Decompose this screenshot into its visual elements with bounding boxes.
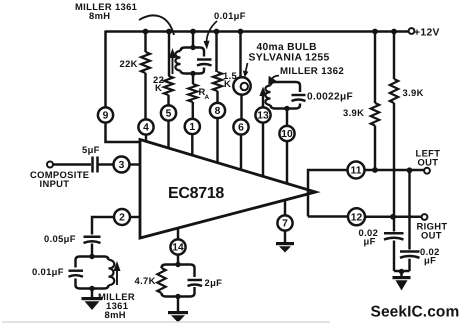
leader to tank L2 <box>272 76 279 80</box>
svg-text:8mH: 8mH <box>105 309 126 320</box>
wire bus to R 22K <box>144 32 146 53</box>
capacitor 5uF <box>93 157 98 173</box>
svg-text:+12V: +12V <box>414 28 440 39</box>
junction <box>391 29 397 35</box>
svg-text:4: 4 <box>143 123 149 134</box>
tuning arrow tank 1 <box>172 56 174 74</box>
wire 3.9K to left-out line <box>374 126 376 171</box>
ground (pin 14 RC) <box>168 311 188 314</box>
wire tank 2 to pin 10 <box>286 109 288 127</box>
wire 1.5K to pin 8 <box>216 91 218 103</box>
svg-text:SYLVANIA 1255: SYLVANIA 1255 <box>249 53 330 64</box>
svg-text:OUT: OUT <box>421 230 442 241</box>
junction <box>214 29 220 35</box>
svg-text:μF: μF <box>424 255 436 266</box>
svg-text:22K: 22K <box>120 58 138 69</box>
resistor RA <box>188 84 197 102</box>
svg-text:2μF: 2μF <box>205 277 223 288</box>
junction <box>372 29 378 35</box>
wire bus to bulb <box>239 32 241 78</box>
svg-text:6: 6 <box>238 123 244 134</box>
pin 13 <box>255 107 270 122</box>
resistor 3.9K (right) <box>390 79 398 103</box>
svg-text:SeekIC.com: SeekIC.com <box>371 304 460 321</box>
tuning arrow tank 3 <box>116 269 118 285</box>
wire pin 7 to ground <box>284 231 286 243</box>
capacitor 0.0022uF in tank 2 <box>299 86 301 106</box>
wire op-amp to pin 7 <box>284 201 286 216</box>
wire pin 11 to LEFT OUT <box>365 169 425 172</box>
wire op-amp output node <box>308 170 348 217</box>
capacitor 0.02uF (first) <box>384 232 404 235</box>
pin 4 <box>138 119 153 134</box>
wire pin 1 to op-amp <box>191 134 193 156</box>
svg-text:3.9K: 3.9K <box>343 107 364 118</box>
tank 3 loop <box>80 257 104 289</box>
op-amp U1 EC8718 <box>140 140 316 239</box>
wire pin 3 to op-amp <box>130 163 141 165</box>
svg-text:11: 11 <box>351 166 362 177</box>
wire 0.05uF to tank 3 <box>91 244 93 257</box>
wire pin 4 to op-amp <box>145 135 147 142</box>
ground (output caps) <box>393 276 411 279</box>
resistor 3.9K (left) <box>371 103 379 126</box>
junction <box>143 29 149 35</box>
svg-text:EC8718: EC8718 <box>168 185 224 202</box>
leader to C of tank 1 <box>207 21 218 42</box>
inductor L3 (right leg of tank 3) <box>109 260 115 285</box>
wire tank 3 to ground <box>91 289 93 298</box>
wire pin 5 to op-amp <box>167 121 169 149</box>
leader to bulb <box>246 63 248 72</box>
capacitor 0.02uF (second) <box>400 250 420 253</box>
svg-text:OUT: OUT <box>418 156 439 167</box>
tuning arrow / pin 13 wire <box>262 94 264 108</box>
resistor 22K (second) <box>164 76 173 95</box>
wire pin 2 to C 0.05uF <box>92 217 114 235</box>
svg-text:K: K <box>224 78 231 89</box>
svg-text:8: 8 <box>215 106 221 117</box>
node LEFT OUT terminal <box>424 168 430 174</box>
wire 22K to pin 5 <box>167 95 169 106</box>
wire bus to second 22K <box>168 32 170 77</box>
wire op-amp to pin 14 <box>177 228 179 239</box>
+12V terminal <box>409 28 415 34</box>
svg-text:5μF: 5μF <box>82 144 100 155</box>
wire bus left end down to pin 9 <box>104 31 107 108</box>
pin 3 <box>114 157 130 173</box>
junction <box>190 29 196 35</box>
svg-text:3.9K: 3.9K <box>403 87 424 98</box>
svg-text:1: 1 <box>189 122 195 133</box>
wire 5uF to pin 3 <box>98 163 114 165</box>
node COMPOSITE INPUT terminal <box>47 162 53 168</box>
svg-text:K: K <box>155 82 162 93</box>
svg-text:9: 9 <box>103 111 109 122</box>
leader arc to tank L1 <box>139 15 174 35</box>
wire pin 6 to op-amp <box>240 135 242 171</box>
capacitor 0.01uF in tank 1 <box>203 51 205 71</box>
resistor 22K <box>141 52 150 73</box>
wire 22K to pin 4 <box>144 73 146 120</box>
svg-text:12: 12 <box>351 213 363 224</box>
pin 7 <box>277 215 292 230</box>
pin 11 <box>348 162 365 179</box>
wire pin 14 to RC network <box>177 255 179 265</box>
node RIGHT OUT terminal <box>422 214 428 220</box>
ground (pin 7) <box>276 242 294 245</box>
pin 5 <box>161 105 176 120</box>
capacitor 0.05uF <box>84 236 101 239</box>
svg-text:0.05μF: 0.05μF <box>44 233 76 244</box>
scan streak bottom <box>2 321 330 323</box>
wire bus to R 3.9K (B) <box>393 32 395 80</box>
lamp DS1 Sylvania 1255 <box>233 77 250 94</box>
pin 12 <box>348 208 365 225</box>
wire pin 9 to op-amp <box>106 123 141 143</box>
wire pin 10 to op-amp <box>286 141 288 184</box>
wire bus to R 3.9K (A) <box>374 32 376 104</box>
svg-text:10: 10 <box>281 129 293 140</box>
wire op-amp to pin 2 <box>130 216 140 218</box>
wire 3.9K down to 0.02uF cap <box>393 103 395 232</box>
wire +12V supply bus <box>106 30 409 33</box>
wire left-out junction down to 0.02uF cap (second) <box>408 170 410 249</box>
ground (tank 3) <box>82 297 103 300</box>
wire RA to pin 1 <box>192 102 194 119</box>
svg-text:3: 3 <box>119 160 125 171</box>
pin 8 <box>210 103 225 118</box>
junction <box>166 29 172 35</box>
svg-text:0.01μF: 0.01μF <box>214 10 246 21</box>
svg-text:A: A <box>205 94 210 101</box>
resistor 1.5K <box>213 72 222 91</box>
svg-text:7: 7 <box>282 219 288 230</box>
pin 9 <box>98 107 113 122</box>
capacitor 2uF (right leg) <box>193 268 195 293</box>
pin 10 <box>279 126 294 141</box>
svg-text:8mH: 8mH <box>89 10 110 21</box>
svg-text:INPUT: INPUT <box>40 178 70 189</box>
resistor 4.7K (left leg) <box>157 268 165 293</box>
svg-text:5: 5 <box>166 109 172 120</box>
RC loop <box>166 265 190 297</box>
wire tank 1 to RA <box>192 74 194 85</box>
wire pin 13 to op-amp <box>262 123 264 177</box>
svg-text:0.0022μF: 0.0022μF <box>307 92 353 103</box>
svg-text:14: 14 <box>172 243 184 254</box>
wire to pin 12 <box>308 215 348 218</box>
svg-text:2: 2 <box>119 213 125 224</box>
svg-text:4.7K: 4.7K <box>135 275 156 286</box>
svg-text:40ma BULB: 40ma BULB <box>257 42 317 53</box>
svg-text:μF: μF <box>364 236 376 247</box>
svg-text:MILLER 1362: MILLER 1362 <box>280 66 344 77</box>
svg-text:0.01μF: 0.01μF <box>32 266 64 277</box>
wire bus to R 1.5K <box>215 32 217 73</box>
wire input to C 5uF <box>53 163 91 165</box>
junction <box>238 29 244 35</box>
capacitor 0.01uF (left leg of tank 3) <box>74 260 76 285</box>
wire joining caps to ground <box>394 270 410 273</box>
pin 14 <box>170 239 185 254</box>
inductor L1 tank loop <box>185 48 200 74</box>
wire RC to ground <box>177 297 179 312</box>
svg-text:13: 13 <box>257 111 269 122</box>
wire bulb to pin 6 <box>240 95 242 120</box>
wire pin 12 to RIGHT OUT <box>365 216 422 219</box>
inductor L2 tank loop <box>275 82 296 109</box>
pin 2 <box>114 209 130 225</box>
wire pin 8 to op-amp <box>216 118 218 163</box>
pin 6 <box>233 119 248 134</box>
wire bus to tank 1 <box>192 32 194 48</box>
pin 1 <box>185 119 200 134</box>
